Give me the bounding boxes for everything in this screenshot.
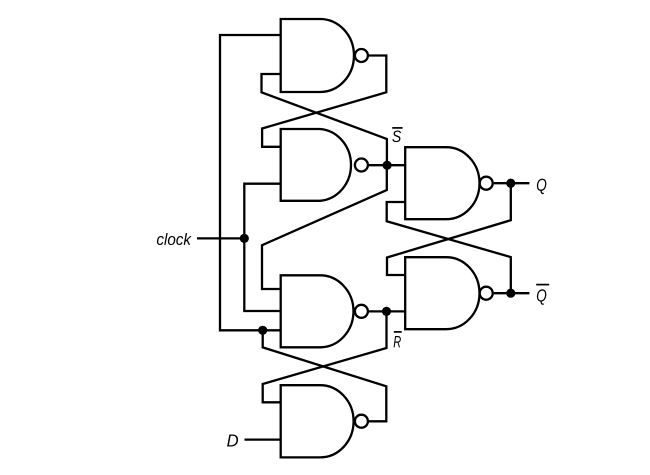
label: clock input: [157, 233, 192, 245]
junction dot: Sbar node: [383, 161, 392, 170]
overbar of Rbar node: [394, 331, 402, 333]
NAND gate G5 (Rbar gate, 3-input) body: [281, 275, 354, 347]
wire: G3 output to Q terminal: [494, 182, 530, 184]
junction dot: Rbar node: [382, 307, 391, 316]
wire: Rbar node down, diagonal to G6 upper input step: [263, 311, 387, 402]
wire: Qbar node up, diagonal to G3 lower input step: [387, 202, 511, 293]
NAND gate G4 output bubble: [480, 287, 493, 300]
NAND gate G2 (Sbar gate) body: [281, 129, 351, 201]
wire: node D feedback left rail to G1 upper input and G5 lower input: [220, 35, 282, 330]
NAND gate G4 (Qbar gate) body: [405, 257, 479, 329]
junction dot: node D on G5 lower input: [258, 326, 267, 335]
label: Sbar node S glyph: [392, 130, 401, 142]
wire: G5 output Rbar to G4 lower input: [369, 310, 405, 312]
overbar of Qbar output: [536, 284, 549, 286]
label: D input: [227, 434, 238, 446]
wire: G1 output, down, diagonal to G2 upper input step: [262, 56, 386, 147]
junction dot: Q node: [506, 179, 515, 188]
junction dot: Qbar node: [506, 289, 515, 298]
NAND gate G1 output bubble: [355, 49, 368, 62]
NAND gate G3 output bubble: [480, 177, 493, 190]
wire: G1 lower input step, diagonal from Sbar node: [262, 74, 387, 165]
NAND gate G1 (top) body: [281, 19, 354, 92]
junction dot: clock node: [240, 234, 249, 243]
wire: G6 output, up, diagonal to node D junction: [263, 330, 387, 421]
label: Rbar node R glyph: [394, 336, 401, 347]
wire: clock input lead: [197, 237, 244, 239]
NAND gate G3 (Q gate) body: [405, 147, 479, 219]
wire: Sbar node to G3 upper input: [369, 164, 405, 166]
NAND gate G6 (bottom, D gate) body: [281, 385, 354, 457]
wire: Sbar node down, diagonal to G5 upper input step: [262, 165, 387, 289]
label: Qbar output Q glyph: [537, 289, 547, 305]
overbar of Sbar node: [392, 127, 402, 129]
NAND gate G6 output bubble: [355, 415, 368, 428]
wire: D input lead: [245, 438, 282, 440]
wire: clock vertical rail to G2 lower input and G5 middle input: [244, 184, 281, 311]
wire: Q node down, diagonal to G4 upper input step: [387, 183, 511, 275]
NAND gate G2 output bubble: [355, 159, 368, 172]
label: Q output: [537, 179, 547, 195]
wire: G4 output to Qbar terminal: [494, 292, 530, 294]
NAND gate G5 output bubble: [355, 305, 368, 318]
